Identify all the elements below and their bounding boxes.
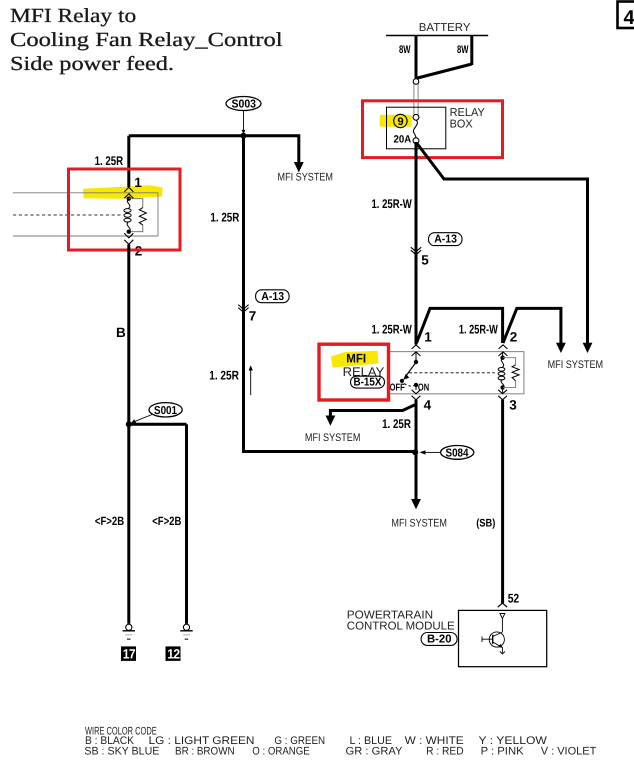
svg-text:V : VIOLET: V : VIOLET [541, 745, 597, 757]
svg-text:7: 7 [249, 309, 257, 324]
svg-text:B-15X: B-15X [354, 377, 382, 389]
svg-text:4: 4 [624, 7, 634, 29]
svg-text:B: B [116, 325, 126, 340]
svg-text:SB : SKY BLUE: SB : SKY BLUE [84, 745, 159, 757]
svg-text:1. 25R: 1. 25R [209, 368, 239, 382]
svg-text:MFI Relay to: MFI Relay to [10, 5, 136, 27]
svg-text:MFI SYSTEM: MFI SYSTEM [391, 518, 447, 530]
svg-text:O : ORANGE: O : ORANGE [252, 745, 309, 757]
svg-text:OFF: OFF [390, 383, 405, 394]
svg-text:1. 25R: 1. 25R [210, 211, 239, 225]
svg-text:<F>2B: <F>2B [152, 514, 181, 528]
svg-text:1. 25R-W: 1. 25R-W [372, 323, 412, 337]
svg-text:1: 1 [424, 329, 432, 344]
svg-text:8W: 8W [457, 44, 469, 56]
svg-text:S084: S084 [446, 447, 470, 459]
svg-text:GR : GRAY: GR : GRAY [346, 745, 404, 757]
svg-text:BR : BROWN: BR : BROWN [175, 745, 235, 757]
svg-text:52: 52 [508, 592, 520, 606]
svg-text:MFI SYSTEM: MFI SYSTEM [548, 359, 604, 371]
svg-text:(SB): (SB) [476, 518, 495, 530]
svg-text:RELAY: RELAY [450, 107, 486, 119]
svg-text:3: 3 [509, 398, 517, 413]
svg-text:BOX: BOX [450, 119, 473, 131]
svg-text:9: 9 [398, 116, 404, 128]
svg-text:5: 5 [421, 252, 429, 267]
svg-text:Cooling Fan Relay_Control: Cooling Fan Relay_Control [10, 29, 283, 51]
svg-text:MFI SYSTEM: MFI SYSTEM [278, 171, 334, 183]
svg-text:B-20: B-20 [427, 634, 452, 646]
svg-text:CONTROL MODULE: CONTROL MODULE [347, 621, 455, 633]
svg-text:MFI: MFI [346, 351, 366, 365]
svg-text:1. 25R: 1. 25R [382, 417, 411, 431]
svg-text:1. 25R: 1. 25R [95, 154, 124, 168]
svg-text:S001: S001 [154, 405, 178, 417]
svg-text:MFI SYSTEM: MFI SYSTEM [305, 432, 361, 444]
svg-text:ON: ON [418, 383, 429, 394]
svg-text:S003: S003 [232, 99, 257, 111]
svg-text:8W: 8W [399, 44, 411, 56]
svg-text:<F>2B: <F>2B [95, 514, 124, 528]
svg-text:R : RED: R : RED [426, 745, 464, 757]
svg-text:Side power feed.: Side power feed. [10, 53, 174, 75]
svg-text:12: 12 [167, 647, 180, 662]
svg-text:20A: 20A [394, 134, 412, 146]
svg-text:1. 25R-W: 1. 25R-W [459, 323, 498, 337]
svg-text:A-13: A-13 [261, 291, 284, 303]
svg-text:P : PINK: P : PINK [481, 745, 525, 757]
svg-text:2: 2 [510, 329, 518, 344]
svg-text:BATTERY: BATTERY [419, 22, 471, 34]
svg-text:17: 17 [123, 647, 136, 662]
svg-text:4: 4 [424, 398, 432, 413]
svg-text:1. 25R-W: 1. 25R-W [372, 197, 412, 211]
svg-text:1: 1 [134, 175, 142, 190]
svg-text:A-13: A-13 [434, 234, 457, 246]
